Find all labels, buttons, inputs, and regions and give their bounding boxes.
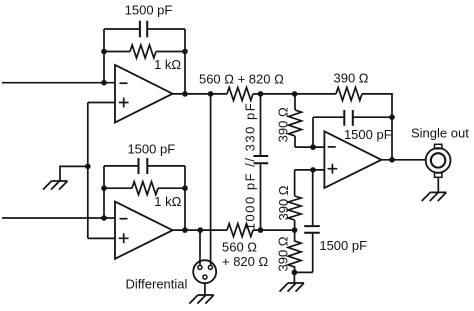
node bottom line end: [292, 227, 298, 233]
resistor 390 Ohm (U3 feedback): [336, 87, 362, 100]
wire divider to bottom line: [294, 220, 296, 230]
capacitor 1500 pF (U2 feedback): [139, 158, 148, 174]
op-amp U1: [115, 65, 173, 123]
ground (divider): [280, 283, 305, 292]
wire common ground vertical (joins both + inputs): [87, 103, 89, 239]
capacitor 1500 pF (U1 feedback): [140, 21, 147, 37]
node U1 output to differential pin 2: [208, 91, 214, 97]
connector differential: pin 3: [203, 275, 207, 279]
node bottom line to differential pin 1: [198, 227, 204, 233]
node top line / 390 shunt: [292, 91, 298, 97]
op-amp U2: [115, 202, 173, 259]
U3 minus symbol: [328, 146, 336, 148]
capacitor 1500 pF (+ shunt) plates: [304, 226, 320, 233]
resistor 560+820 (top): [227, 87, 253, 100]
connector differential: pin 2: [208, 265, 212, 269]
wire 1500pF feedback cap branch: [313, 117, 392, 147]
resistor 560+820 (bottom): [227, 224, 253, 237]
svg-text:390 Ω: 390 Ω: [276, 236, 291, 271]
svg-text:390 Ω: 390 Ω: [276, 107, 291, 142]
ground (single out): [422, 192, 447, 201]
wire to left ground: [60, 166, 88, 181]
U1 plus symbol: [119, 98, 129, 108]
wire connector to ground: [437, 177, 439, 192]
node top line / 1000pF cap: [258, 91, 264, 97]
node U3 inverting input / 1500pF stub: [310, 144, 316, 150]
wire U2 feedback right vertical: [184, 166, 186, 230]
resistor 1 kOhm (U2 feedback): [132, 182, 158, 195]
svg-text:1500 pF: 1500 pF: [319, 238, 367, 253]
svg-text:1000 pF // 330 pF: 1000 pF // 330 pF: [242, 103, 257, 230]
node ground junction: [292, 270, 298, 276]
wire U1 feedback right vertical: [184, 29, 186, 94]
node U2 output / feedback: [182, 227, 188, 233]
wire differential pin 1 drop: [199, 230, 201, 265]
wire U2 feedback left vertical: [103, 166, 105, 218]
wire U1 feedback left vertical: [103, 29, 105, 83]
node at U1 inverting input: [101, 80, 107, 86]
node at U2 inverting input: [101, 215, 107, 221]
svg-text:Single out: Single out: [411, 125, 469, 140]
wire to lower ground: [293, 272, 295, 283]
wire bottom summing line: [253, 229, 295, 231]
resistor 1 kOhm (U1 feedback): [130, 45, 156, 58]
wire + divider upper vertical: [294, 170, 296, 196]
U1 minus symbol: [120, 82, 128, 84]
resistor 390 Ohm (+ divider lower, to ground): [288, 230, 301, 272]
U2 plus symbol: [119, 233, 129, 243]
wire U2 non-inverting input: [88, 237, 115, 239]
wire U1 feedback capacitor branch: [104, 28, 185, 30]
resistor 390 Ohm (to U3 inverting input): [289, 110, 302, 136]
wire U3 output to connector: [381, 159, 426, 161]
wire feedback to U3 output: [362, 94, 392, 160]
wire 390 shunt top vertical: [294, 94, 296, 110]
capacitor 1000 pF // 330 pF: [254, 156, 269, 163]
svg-text:Differential: Differential: [126, 277, 188, 292]
wire input 1 (top differential input to U1 inverting input): [2, 82, 115, 84]
svg-text:1500 pF: 1500 pF: [127, 141, 175, 156]
node ground tee: [85, 164, 91, 170]
connector differential: pin 1: [198, 265, 202, 269]
svg-text:560 Ω + 820 Ω: 560 Ω + 820 Ω: [199, 72, 284, 87]
svg-text:390 Ω: 390 Ω: [276, 185, 291, 220]
capacitor 1500 pF (+ input shunt) wires: [294, 170, 312, 273]
wire U2 feedback resistor branch: [104, 187, 185, 189]
connector single out: outer ring: [426, 148, 451, 173]
node U2 feedback-left / resistor branch: [101, 185, 107, 191]
connector differential: shell: [193, 260, 216, 283]
node bottom line / 1000pF cap: [258, 227, 264, 233]
node + input / 1500pF shunt: [310, 167, 316, 173]
node cap branch / feedback vertical: [389, 114, 395, 120]
wire differential shell to ground: [204, 283, 206, 295]
connector single out: bottom tab: [435, 173, 442, 177]
svg-text:1500 pF: 1500 pF: [125, 3, 173, 18]
U3 plus symbol: [328, 164, 338, 174]
wire U2 output / bottom line: [173, 229, 227, 231]
ground (differential): [189, 295, 214, 304]
wire 1000pF cap branch vertical: [260, 94, 262, 230]
connector single out: inner ring: [431, 153, 445, 167]
ground (left, input common): [43, 181, 68, 190]
node U3 output: [389, 157, 395, 163]
svg-text:+ 820 Ω: + 820 Ω: [222, 254, 269, 269]
wire input 2 (bottom differential input to U2 inverting input): [2, 217, 115, 219]
wire U2 feedback capacitor branch: [104, 165, 185, 167]
svg-text:560 Ω: 560 Ω: [222, 240, 257, 255]
svg-text:1 kΩ: 1 kΩ: [154, 57, 181, 72]
U2 minus symbol: [120, 218, 128, 220]
wire U1 non-inverting input: [88, 102, 115, 104]
wire U1 output: [173, 93, 227, 95]
node feedback-left / resistor branch: [101, 49, 107, 55]
op-amp U3: [324, 131, 381, 188]
svg-text:1 kΩ: 1 kΩ: [154, 194, 181, 209]
capacitor 1500 pF (U3 feedback): [344, 110, 353, 126]
resistor 390 Ohm (+ divider upper): [288, 196, 301, 220]
node U2 feedback-right / resistor branch: [182, 185, 188, 191]
svg-text:1500 pF: 1500 pF: [344, 127, 392, 142]
connector single out: top tab: [435, 144, 442, 148]
svg-text:390 Ω: 390 Ω: [333, 70, 368, 85]
wire U3 non-inverting input: [295, 169, 325, 171]
wire top summing line: [253, 93, 336, 95]
wire U1 feedback resistor branch: [104, 51, 185, 53]
wire differential pin 2 drop: [210, 94, 212, 266]
node feedback-right / resistor branch: [182, 49, 188, 55]
wire to U3 inverting input: [295, 136, 324, 147]
node U1 output / feedback: [182, 91, 188, 97]
